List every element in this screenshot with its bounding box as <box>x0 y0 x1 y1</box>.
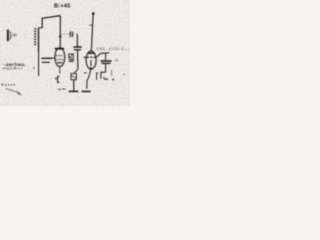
svg-text:1%2. ±12V.4—-: 1%2. ±12V.4—- <box>96 47 130 51</box>
svg-text:M:: M: <box>13 33 18 38</box>
svg-text:''''1'"-: ''''1'"- <box>3 67 14 71</box>
svg-text:B:+45: B:+45 <box>54 3 70 9</box>
